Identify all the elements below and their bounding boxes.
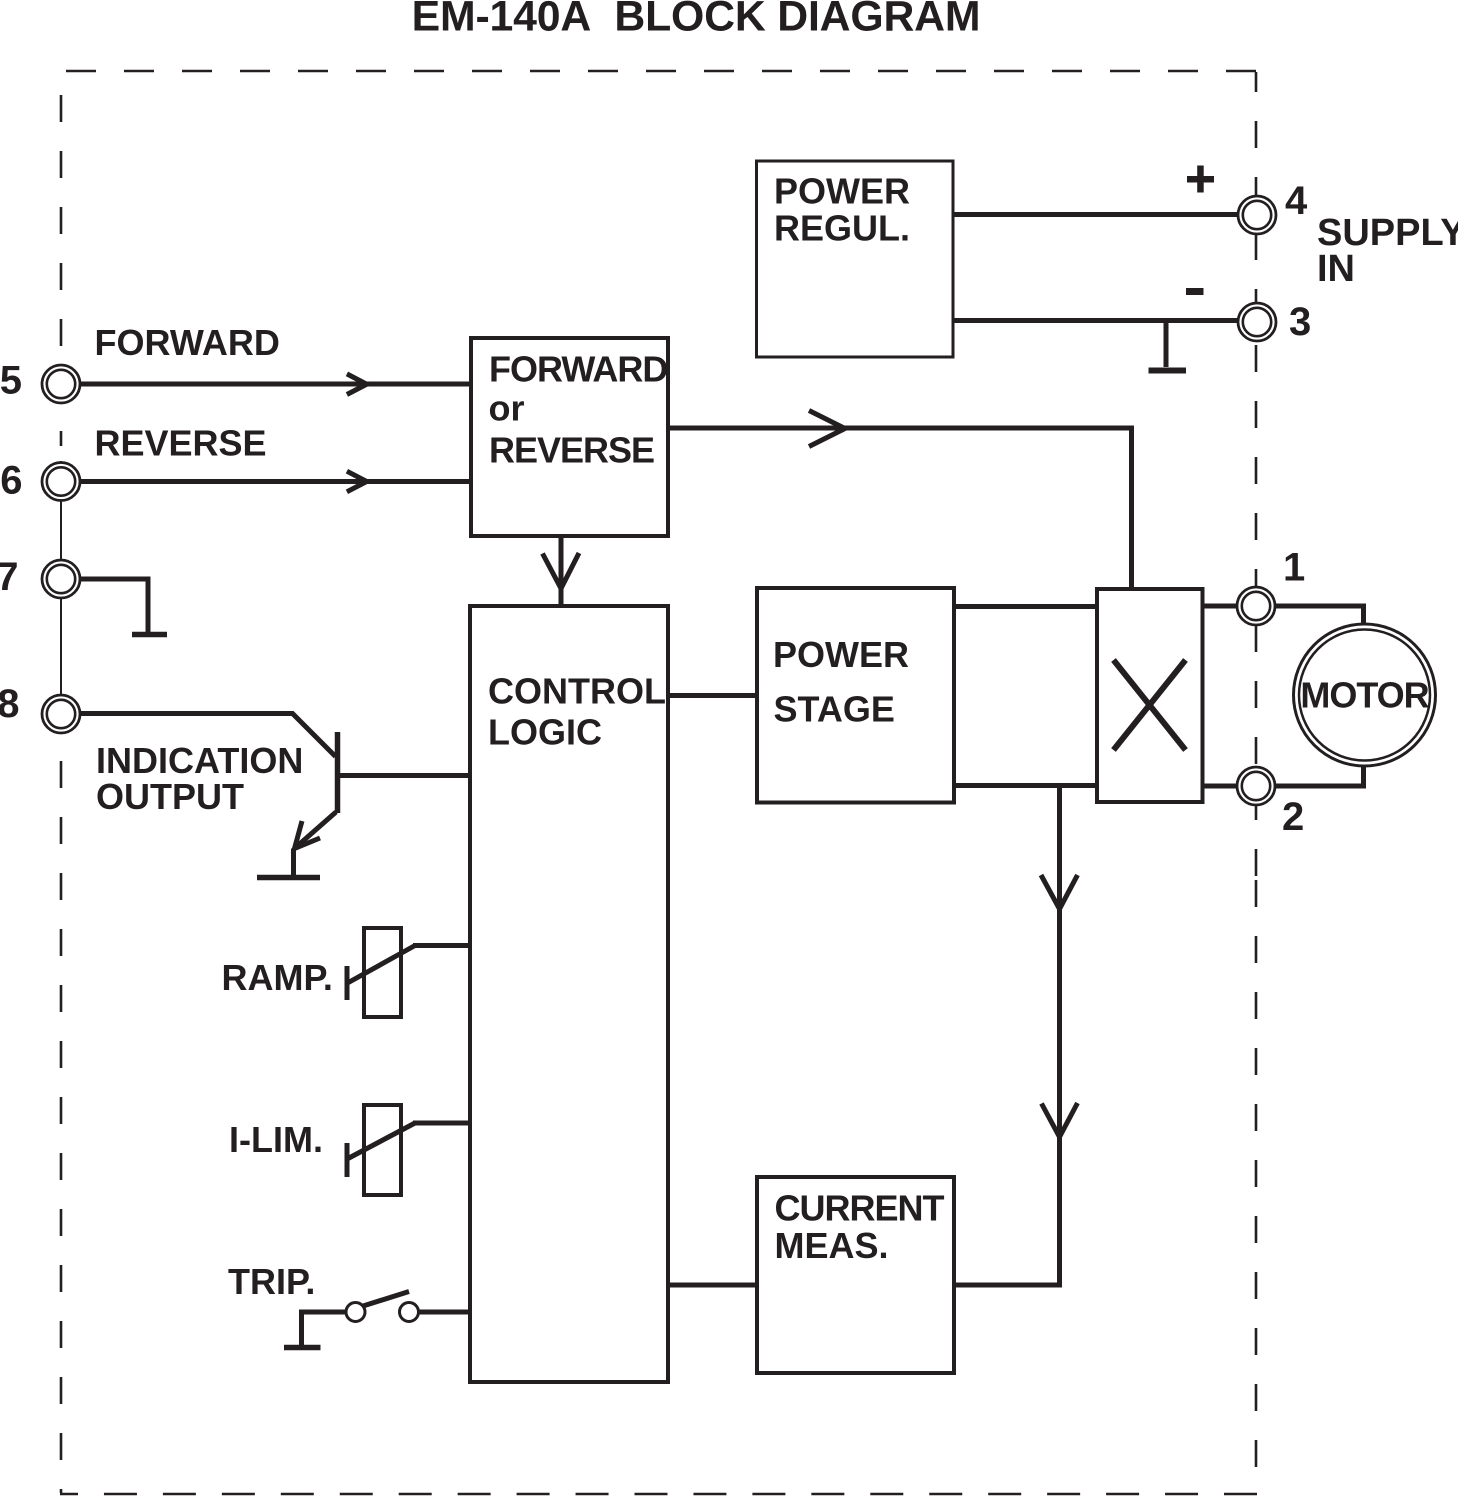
arrowhead on forward wire: [347, 374, 367, 395]
ground bar on supply minus: [1149, 368, 1187, 374]
svg-text:CONTROL: CONTROL: [488, 671, 666, 712]
box POWER STAGE: [757, 588, 954, 803]
terminal 6 outer: [42, 463, 80, 501]
svg-text:CURRENT: CURRENT: [775, 1187, 945, 1228]
terminal 1 inner: [1242, 592, 1270, 620]
terminal 4 outer: [1238, 196, 1276, 234]
box POWER REGUL.: [757, 161, 954, 357]
svg-text:MOTOR: MOTOR: [1300, 675, 1429, 716]
arrowhead down into CONTROL LOGIC: [543, 553, 580, 589]
TRIP switch left contact circle: [346, 1303, 365, 1322]
arrowhead lower on current sense wire: [1042, 1103, 1078, 1137]
svg-text:3: 3: [1289, 300, 1311, 344]
terminal 3 inner: [1243, 308, 1271, 336]
dashed enclosure border: left edge lower: [60, 747, 63, 1493]
potentiometer I-LIM wiper bar: [345, 1143, 350, 1177]
svg-text:4: 4: [1285, 179, 1308, 223]
dashed enclosure border: bottom edge: [60, 1493, 1257, 1496]
wire POWER REGUL to terminal 3: [953, 318, 1238, 323]
TRIP switch left wire with ground elbow: [302, 1312, 347, 1346]
svg-text:6: 6: [0, 459, 22, 503]
potentiometer RAMP rectangle: [364, 928, 401, 1017]
X bridge cross stroke 1: [1114, 660, 1186, 750]
arrowhead on output wire: [809, 411, 845, 447]
box CURRENT MEAS.: [757, 1177, 954, 1373]
minus sign for supply: [1186, 288, 1204, 295]
wire FORWARD/REVERSE down to CONTROL LOGIC: [559, 536, 564, 604]
svg-text:INDICATION: INDICATION: [96, 740, 303, 781]
svg-text:REVERSE: REVERSE: [489, 430, 654, 471]
potentiometer RAMP wiper diagonal: [348, 946, 416, 984]
motor M1 inner circle: [1299, 630, 1430, 761]
svg-text:MEAS.: MEAS.: [775, 1225, 889, 1266]
svg-text:POWER: POWER: [773, 634, 909, 675]
terminal 2 inner: [1242, 772, 1270, 800]
wire terminal 6 to FORWARD/REVERSE box: [81, 479, 471, 484]
dashed enclosure border: top edge: [66, 70, 1256, 73]
ground bar for TRIP: [284, 1345, 321, 1351]
wire terminal 5 to FORWARD/REVERSE box: [81, 382, 471, 387]
wire TRIP to CONTROL LOGIC: [419, 1310, 470, 1315]
transistor Q1 base bar: [335, 732, 341, 813]
svg-text:REVERSE: REVERSE: [95, 423, 267, 464]
wire terminal 2 to motor: [1276, 765, 1364, 786]
terminal 5 inner: [47, 370, 75, 398]
wire X bridge to terminal 1: [1202, 604, 1237, 609]
wire terminal 1 to motor: [1276, 606, 1364, 625]
TRIP switch lever: [363, 1292, 409, 1307]
terminal 8 outer: [42, 695, 80, 733]
wire terminal 8 to transistor base: [81, 714, 336, 757]
wire POWER STAGE to X bridge bottom: [954, 783, 1097, 788]
svg-text:STAGE: STAGE: [774, 688, 895, 729]
ground stub on supply minus wire: [1164, 322, 1169, 367]
terminal 7 inner: [47, 565, 75, 593]
dashed enclosure border: left edge upper: [60, 95, 63, 446]
emitter drop wire: [291, 849, 296, 876]
terminal 4 inner: [1243, 201, 1271, 229]
arrowhead upper on current sense wire: [1041, 875, 1078, 909]
terminal 5 outer: [42, 365, 80, 403]
terminal 6 inner: [47, 467, 75, 495]
wire X bridge to terminal 2: [1202, 784, 1237, 789]
svg-text:IN: IN: [1317, 248, 1355, 290]
wire FORWARD/REVERSE box to X bridge: [668, 428, 1132, 589]
arrowhead on reverse wire: [347, 471, 367, 492]
wire CONTROL LOGIC to POWER STAGE: [668, 693, 757, 698]
terminal 3 outer: [1238, 303, 1276, 341]
svg-text:or: or: [489, 388, 525, 429]
dashed enclosure border: right edge lower: [1255, 880, 1258, 1493]
dashed enclosure border: right edge upper: [1255, 72, 1258, 880]
wire RAMP to CONTROL LOGIC: [413, 943, 470, 948]
svg-text:I-LIM.: I-LIM.: [229, 1119, 323, 1160]
wire POWER STAGE to X bridge top: [954, 604, 1097, 609]
wire CURRENT MEAS to CONTROL LOGIC: [668, 1283, 757, 1288]
terminal 7 outer: [42, 560, 80, 598]
potentiometer I-LIM wiper diagonal: [348, 1123, 415, 1159]
svg-text:7: 7: [0, 555, 19, 599]
wire I-LIM to CONTROL LOGIC: [413, 1121, 470, 1126]
svg-text:5: 5: [0, 359, 22, 403]
svg-text:RAMP.: RAMP.: [222, 957, 333, 998]
ground bar for terminal 7: [132, 632, 167, 638]
svg-text:LOGIC: LOGIC: [488, 712, 602, 753]
motor M1 outer circle: [1294, 624, 1436, 766]
terminal 1 outer: [1237, 587, 1275, 625]
arrowhead on emitter: [295, 821, 321, 849]
transistor Q1 emitter: [295, 812, 336, 848]
svg-text:TRIP.: TRIP.: [228, 1261, 315, 1302]
ground bar for emitter: [257, 875, 320, 881]
transistor Q1 collector wire to CONTROL LOGIC: [339, 773, 470, 778]
svg-text:OUTPUT: OUTPUT: [96, 776, 244, 817]
box CONTROL LOGIC: [470, 606, 668, 1382]
box X bridge: [1097, 589, 1203, 802]
svg-text:FORWARD: FORWARD: [489, 349, 667, 390]
current sense wire down from bottom motor wire: [954, 786, 1060, 1286]
box FORWARD or REVERSE: [471, 338, 668, 536]
svg-text:8: 8: [0, 682, 20, 726]
X bridge cross stroke 2: [1114, 660, 1186, 750]
svg-text:1: 1: [1283, 546, 1305, 590]
terminal 8 inner: [47, 700, 75, 728]
svg-text:2: 2: [1282, 795, 1304, 839]
wire POWER REGUL to terminal 4: [953, 212, 1238, 217]
left edge solid thin segment between terminals 6 and 8: [60, 461, 62, 694]
potentiometer I-LIM rectangle: [364, 1105, 401, 1195]
svg-text:FORWARD: FORWARD: [95, 322, 280, 363]
svg-text:REGUL.: REGUL.: [774, 208, 910, 249]
plus sign for supply: [1187, 176, 1214, 183]
wire terminal 7 to ground: [81, 579, 148, 632]
TRIP switch right contact circle: [400, 1303, 419, 1322]
terminal 2 outer: [1237, 767, 1275, 805]
svg-text:POWER: POWER: [774, 171, 910, 212]
potentiometer RAMP wiper bar: [345, 966, 350, 1000]
svg-text:EM-140A BLOCK DIAGRAM: EM-140A BLOCK DIAGRAM: [412, 0, 981, 41]
